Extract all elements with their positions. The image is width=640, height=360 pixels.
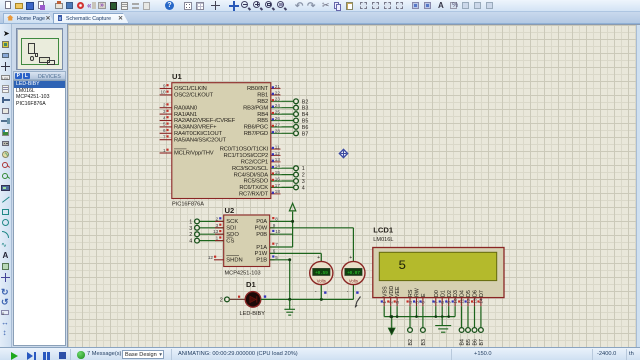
svg-text:11: 11 [275, 144, 280, 149]
svg-text:5: 5 [275, 255, 278, 260]
svg-text:LED-BIBY: LED-BIBY [240, 311, 266, 317]
svg-text:5: 5 [414, 301, 419, 304]
svg-text:2: 2 [216, 216, 219, 221]
svg-text:B3: B3 [421, 339, 427, 345]
svg-text:7: 7 [275, 242, 278, 247]
svg-text:D4: D4 [460, 290, 466, 297]
svg-text:E: E [421, 293, 427, 297]
svg-text:4: 4 [163, 115, 166, 120]
svg-text:Volts: Volts [317, 278, 326, 283]
svg-text:21: 21 [275, 84, 281, 89]
svg-text:1: 1 [302, 166, 305, 172]
svg-text:5: 5 [398, 258, 406, 273]
svg-text:-: - [347, 289, 349, 295]
svg-text:2: 2 [189, 232, 192, 238]
svg-text:VSS: VSS [382, 286, 388, 297]
svg-text:RC4/SDI/SDA: RC4/SDI/SDA [234, 172, 269, 178]
svg-text:B5: B5 [302, 119, 309, 125]
svg-text:RW: RW [415, 288, 421, 297]
svg-text:RA3/AN3/VREF+: RA3/AN3/VREF+ [174, 125, 217, 131]
svg-text:13: 13 [275, 157, 281, 162]
svg-text:D7: D7 [479, 290, 485, 297]
svg-text:RC5/SDO: RC5/SDO [243, 179, 268, 185]
svg-text:4: 4 [189, 239, 192, 245]
svg-text:8: 8 [275, 216, 278, 221]
svg-text:RC6/TX/CK: RC6/TX/CK [239, 185, 268, 191]
svg-text:D1: D1 [246, 280, 256, 289]
svg-text:B3: B3 [302, 106, 309, 112]
svg-text:SDI: SDI [226, 226, 236, 232]
svg-text:10: 10 [160, 90, 166, 95]
svg-text:VDD: VDD [389, 286, 395, 297]
svg-text:11: 11 [459, 298, 464, 303]
svg-text:RB5: RB5 [257, 118, 268, 124]
svg-text:RC1/T1OSI/CCP2: RC1/T1OSI/CCP2 [223, 153, 268, 159]
svg-text:B4: B4 [460, 339, 466, 345]
svg-text:P1B: P1B [256, 258, 267, 264]
svg-text:6: 6 [421, 301, 426, 304]
svg-text:B6: B6 [302, 125, 309, 131]
svg-text:B4: B4 [302, 112, 309, 118]
svg-text:RA5/AN4/SS/C2OUT: RA5/AN4/SS/C2OUT [174, 137, 227, 143]
svg-text:15: 15 [275, 170, 281, 175]
svg-text:D0: D0 [434, 290, 440, 297]
svg-text:B2: B2 [408, 339, 414, 345]
svg-text:10: 10 [275, 229, 281, 234]
svg-text:OSC1/CLKIN: OSC1/CLKIN [174, 86, 207, 92]
svg-text:25: 25 [275, 110, 281, 115]
svg-text:8: 8 [440, 301, 445, 304]
svg-text:16: 16 [275, 176, 281, 181]
svg-text:RA2/AN2/VREF-/CVREF: RA2/AN2/VREF-/CVREF [174, 118, 236, 124]
svg-text:7: 7 [163, 135, 166, 140]
svg-text:28: 28 [275, 129, 281, 134]
svg-text:MCLR/Vpp/THV: MCLR/Vpp/THV [174, 151, 214, 157]
svg-text:RB2: RB2 [257, 99, 268, 105]
svg-text:SCK: SCK [226, 219, 238, 225]
svg-text:-: - [315, 289, 317, 295]
svg-text:+: + [349, 255, 352, 261]
svg-text:12: 12 [208, 255, 214, 260]
svg-text:B2: B2 [302, 99, 309, 105]
svg-text:6: 6 [163, 128, 166, 133]
svg-text:26: 26 [275, 116, 281, 121]
svg-text:24: 24 [275, 103, 281, 108]
svg-text:2: 2 [302, 173, 305, 179]
svg-text:7: 7 [434, 301, 439, 304]
svg-text:VEE: VEE [395, 286, 401, 297]
svg-text:17: 17 [275, 183, 281, 188]
svg-text:14: 14 [275, 164, 281, 169]
svg-text:Volts: Volts [349, 278, 358, 283]
svg-text:9: 9 [273, 223, 276, 228]
svg-text:+0.59: +0.59 [315, 270, 328, 276]
svg-text:RB1: RB1 [257, 93, 268, 99]
svg-text:+: + [317, 255, 320, 261]
svg-text:SHDN: SHDN [226, 258, 242, 264]
svg-text:23: 23 [275, 97, 281, 102]
svg-text:13: 13 [213, 229, 219, 234]
svg-text:1: 1 [163, 148, 166, 153]
svg-text:RC2/CCP1: RC2/CCP1 [241, 160, 268, 166]
svg-text:D6: D6 [473, 290, 479, 297]
svg-text:RA4/T0CKI/C1OUT: RA4/T0CKI/C1OUT [174, 131, 223, 137]
svg-text:D2: D2 [447, 290, 453, 297]
svg-text:P1A: P1A [256, 245, 267, 251]
svg-text:P0B: P0B [256, 232, 267, 238]
svg-text:B7: B7 [302, 131, 309, 137]
svg-text:LCD1: LCD1 [373, 226, 394, 235]
svg-text:RB6/PGC: RB6/PGC [244, 125, 268, 131]
svg-text:P0W: P0W [255, 226, 268, 232]
svg-text:D1: D1 [440, 290, 446, 297]
svg-text:13: 13 [472, 298, 477, 304]
svg-text:27: 27 [275, 122, 281, 127]
svg-text:+0.07: +0.07 [347, 270, 360, 276]
svg-text:9: 9 [163, 83, 166, 88]
svg-text:RC3/SCK/SCL: RC3/SCK/SCL [232, 166, 269, 172]
svg-text:RB4: RB4 [257, 112, 269, 118]
svg-text:9: 9 [447, 301, 452, 304]
svg-text:RS: RS [408, 289, 414, 297]
svg-text:RB3/PGM: RB3/PGM [243, 105, 268, 111]
svg-text:2: 2 [220, 298, 223, 304]
svg-text:D5: D5 [466, 290, 472, 297]
svg-text:18: 18 [275, 189, 281, 194]
svg-text:3: 3 [189, 226, 192, 232]
svg-text:10: 10 [453, 298, 458, 304]
svg-text:U1: U1 [172, 72, 182, 81]
svg-text:RA0/AN0: RA0/AN0 [174, 105, 197, 111]
svg-text:RB0/INT: RB0/INT [247, 86, 269, 92]
svg-text:3: 3 [216, 223, 219, 228]
svg-text:1: 1 [382, 301, 387, 304]
svg-text:OSC2/CLKOUT: OSC2/CLKOUT [174, 93, 214, 99]
svg-text:22: 22 [275, 90, 281, 95]
svg-text:B5: B5 [466, 339, 472, 345]
svg-text:B6: B6 [473, 339, 479, 345]
svg-text:12: 12 [466, 298, 471, 304]
svg-text:PIC16F876A: PIC16F876A [172, 202, 204, 208]
svg-text:4: 4 [302, 185, 305, 191]
svg-text:RB7/PGD: RB7/PGD [244, 131, 268, 137]
svg-text:3: 3 [302, 179, 305, 185]
svg-text:LM016L: LM016L [373, 237, 393, 243]
svg-text:3: 3 [395, 301, 400, 304]
svg-text:3: 3 [163, 109, 166, 114]
svg-text:4: 4 [408, 301, 413, 304]
svg-text:P0A: P0A [256, 219, 267, 225]
svg-text:12: 12 [275, 151, 281, 156]
svg-text:P1W: P1W [255, 251, 268, 257]
svg-text:2: 2 [389, 301, 394, 304]
svg-text:2: 2 [163, 103, 166, 108]
svg-text:U2: U2 [225, 206, 235, 215]
svg-text:14: 14 [479, 298, 484, 304]
svg-text:CS: CS [226, 238, 234, 244]
svg-text:RC7/RX/DT: RC7/RX/DT [239, 192, 269, 198]
svg-text:RA1/AN1: RA1/AN1 [174, 112, 197, 118]
svg-text:5: 5 [163, 122, 166, 127]
svg-text:6: 6 [273, 248, 276, 253]
svg-text:B7: B7 [479, 339, 485, 345]
svg-text:1: 1 [189, 219, 192, 225]
svg-text:RC0/T1OSO/T1CKI: RC0/T1OSO/T1CKI [220, 147, 269, 153]
svg-text:MCP4251-103: MCP4251-103 [225, 271, 261, 277]
svg-text:1: 1 [216, 236, 219, 241]
svg-text:D3: D3 [453, 290, 459, 297]
